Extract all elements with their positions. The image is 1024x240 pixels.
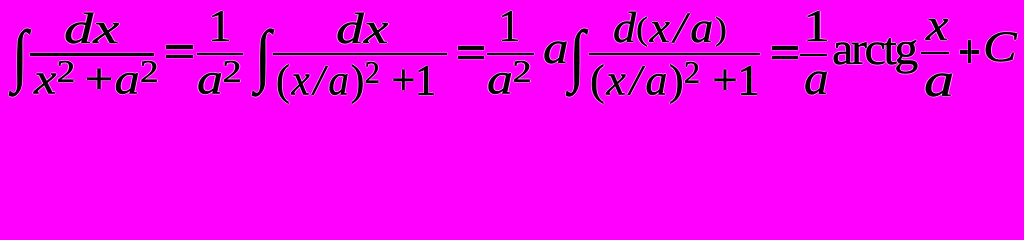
fraction bar 2 <box>273 53 447 55</box>
fraction bar 1/a <box>800 54 827 56</box>
equals sign 2 <box>458 46 484 50</box>
fraction bar x/a <box>921 52 950 54</box>
fraction bar 1/a^2 #2 <box>487 53 534 55</box>
numerator d(x/a) <box>613 7 727 50</box>
numerator x (x/a) <box>926 2 949 48</box>
fraction bar 3 <box>589 53 760 55</box>
numerator dx (fraction 2) <box>336 8 388 51</box>
numerator 1 (1/a^2 #2) <box>498 4 521 49</box>
denominator a^2 #1 <box>197 55 241 102</box>
denominator a (1/a) <box>804 55 829 103</box>
equals sign 3 <box>772 46 798 50</box>
denominator (x/a)^2+1 #1 <box>276 56 436 103</box>
integral sign 3 <box>569 21 585 90</box>
denominator (x/a)^2+1 #2 <box>590 56 760 103</box>
numerator 1 (1/a) <box>803 4 830 49</box>
numerator 1 (1/a^2 #1) <box>208 4 232 49</box>
function name arctg <box>832 26 916 72</box>
denominator a^2 #2 <box>487 55 531 102</box>
fraction bar 1 <box>30 53 154 55</box>
numerator dx (fraction 1) <box>64 8 119 51</box>
integral sign 2 <box>255 21 271 90</box>
factor a <box>543 25 569 71</box>
plus sign <box>960 50 979 54</box>
denominator x^2 + a^2 <box>34 55 159 102</box>
integral sign 1 <box>12 21 28 90</box>
equals sign 1 <box>166 45 193 49</box>
constant C <box>983 26 1017 69</box>
fraction bar 1/a^2 #1 <box>197 53 244 55</box>
denominator a (x/a) <box>924 57 954 105</box>
